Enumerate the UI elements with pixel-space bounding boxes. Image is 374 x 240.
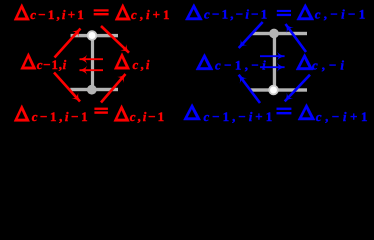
label top-right: Delta_{c-1,-i-1} = Delta_{c,-i-1} [185,4,202,20]
arrow middle lower (points right) [260,66,285,68]
svg-text:c,i: c,i [133,57,150,72]
wire bottom horizontal [250,88,307,91]
label top-left: Delta_{c-1,i+1} = Delta_{c,i+1} [14,4,30,21]
label bottom-left: Delta_{c-1,i-1} = Delta_{c,i-1} [14,105,30,122]
svg-text:c,−i: c,−i [312,58,344,73]
right centre graphic [250,29,307,95]
left centre graphic [70,31,118,94]
svg-text:c−1,−i+1: c−1,−i+1 [204,109,273,124]
label bottom-right: Delta_{c-1,-i+1} = Delta_{c,-i+1} [184,104,201,120]
arrow middle lower (points left) [80,69,104,71]
arrow bottom to mid-right [101,74,126,103]
label mid-left: Delta_{c-1,i} [21,53,37,70]
arrow middle upper (points left) [80,58,104,60]
wire top horizontal [71,34,118,37]
node top (white) [88,31,97,40]
wire top horizontal [252,32,307,35]
node bottom (gray) [87,85,97,95]
arrow middle upper (points right) [260,55,285,57]
node bottom (white) [269,86,278,95]
arrow top to mid-left [239,22,263,48]
arrow mid-left to top [55,29,81,58]
arrow mid-right to top [286,24,307,52]
red arrows [54,26,129,103]
arrow mid-right to bottom [285,75,310,102]
label mid-right: Delta_{c,i} [114,53,130,70]
wire vertical [273,34,276,91]
wire vertical [91,36,94,90]
node top (gray) [269,29,279,39]
label mid-right: Delta_{c,-i} [296,54,313,70]
arrow top to mid-right [101,26,129,53]
arrow bottom to mid-left [239,75,260,103]
label mid-left: Delta_{c-1,-i} [196,54,213,70]
svg-text:c−1,−i−1: c−1,−i−1 [204,6,267,21]
svg-text:c−1,i: c−1,i [37,57,67,72]
arrow mid-left to bottom [54,73,80,102]
blue arrows [239,22,310,103]
wire bottom horizontal [70,88,118,91]
